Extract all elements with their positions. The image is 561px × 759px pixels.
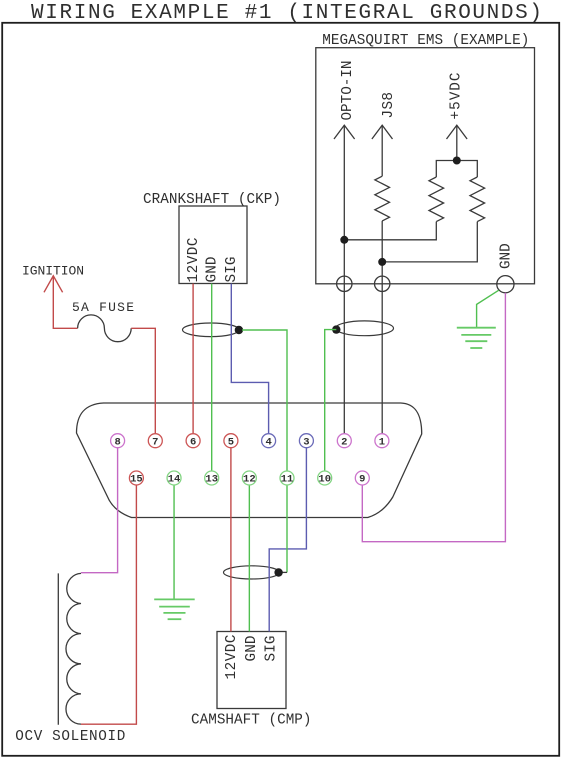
wire +5VDC tee xyxy=(436,161,477,178)
wire CKP GND to pin13 (green) xyxy=(211,284,213,472)
wire pin3 to CMP SIG (blue) xyxy=(269,448,306,632)
pin 14 xyxy=(167,471,181,485)
svg-text:CRANKSHAFT (CKP): CRANKSHAFT (CKP) xyxy=(143,192,281,208)
svg-text:JS8: JS8 xyxy=(381,92,397,119)
svg-text:10: 10 xyxy=(318,474,331,486)
wire R3 to JS8 node xyxy=(382,222,477,262)
solenoid core bar xyxy=(57,573,59,724)
wire R2 to OPTO-IN node xyxy=(344,222,436,240)
wire JS8 lower xyxy=(381,221,383,434)
wire CKP 12VDC to pin6 (red) xyxy=(192,284,194,434)
camshaft box xyxy=(217,632,286,709)
svg-text:WIRING EXAMPLE #1 (INTEGRAL GR: WIRING EXAMPLE #1 (INTEGRAL GROUNDS) xyxy=(31,2,542,25)
connector DB15 shell xyxy=(77,403,422,518)
crankshaft box xyxy=(179,206,247,284)
terminal circle GND xyxy=(497,276,514,293)
svg-text:6: 6 xyxy=(190,436,196,448)
terminal circle OPTO-IN xyxy=(337,276,352,291)
resistor R2 xyxy=(429,177,444,222)
wire OPTO-IN shaft xyxy=(343,125,345,434)
resistor R1 (JS8 pull) xyxy=(375,176,390,221)
svg-text:5: 5 xyxy=(228,436,234,448)
svg-text:CAMSHAFT (CMP): CAMSHAFT (CMP) xyxy=(191,713,312,729)
svg-text:13: 13 xyxy=(205,474,218,486)
svg-text:+5VDC: +5VDC xyxy=(448,73,464,120)
svg-text:SIG: SIG xyxy=(263,636,279,662)
svg-text:5A FUSE: 5A FUSE xyxy=(72,300,134,315)
wire ignition to fuse (red) xyxy=(53,276,77,329)
wire GND to pin9 (magenta) xyxy=(362,293,505,542)
svg-text:GND: GND xyxy=(205,257,221,283)
pin 9 xyxy=(355,471,369,485)
megasquirt box U1 xyxy=(316,48,535,284)
pin 12 xyxy=(242,471,256,485)
wire pin14 to ground (green) xyxy=(173,485,175,599)
shield ellipse CMP xyxy=(224,566,280,579)
pin 13 xyxy=(205,471,219,485)
svg-text:SIG: SIG xyxy=(224,257,240,283)
wire GND to ground (green) xyxy=(477,290,499,328)
svg-text:GND: GND xyxy=(498,243,514,269)
wire JS8 upper xyxy=(381,125,383,176)
node OPTO-IN junction xyxy=(340,236,348,244)
svg-text:14: 14 xyxy=(168,474,181,486)
wire CKP shield to pin11 (green) xyxy=(242,330,287,471)
svg-text:8: 8 xyxy=(114,436,120,448)
svg-text:OPTO-IN: OPTO-IN xyxy=(340,61,356,121)
wire +5VDC shaft xyxy=(456,125,458,160)
terminal circle JS8 xyxy=(375,276,390,291)
wire pin8 to solenoid (magenta) xyxy=(81,448,118,573)
node JS8 junction xyxy=(378,258,386,266)
pin 11 xyxy=(280,471,294,485)
arrow +5VDC xyxy=(447,125,468,139)
svg-text:GND: GND xyxy=(244,636,260,662)
ground symbol right xyxy=(457,328,496,348)
node MS shield xyxy=(332,325,340,333)
pin 2 xyxy=(337,434,351,448)
svg-text:12: 12 xyxy=(243,474,256,486)
fuse F1 xyxy=(78,315,132,342)
svg-text:7: 7 xyxy=(152,436,158,448)
pin 3 xyxy=(299,434,313,448)
arrow JS8 xyxy=(372,125,393,139)
pin 1 xyxy=(375,434,389,448)
wire pin11 to CMP shield (green) xyxy=(286,485,288,572)
pin circles top row xyxy=(111,434,389,485)
node +5VDC junction xyxy=(453,157,461,165)
svg-text:15: 15 xyxy=(130,474,143,486)
wire pin5 to CMP 12VDC (red) xyxy=(230,448,232,632)
node CKP shield xyxy=(235,326,243,334)
pin 8 xyxy=(111,434,125,448)
wire pin12 to CMP GND (green) xyxy=(248,485,250,632)
resistor R3 xyxy=(470,177,485,222)
svg-text:2: 2 xyxy=(341,436,347,448)
ground symbol left xyxy=(154,599,195,619)
wire MS shield to pin10 (green) xyxy=(325,330,337,471)
pin 5 xyxy=(224,434,238,448)
pin 7 xyxy=(148,434,162,448)
svg-text:11: 11 xyxy=(281,474,294,486)
wire solenoid to pin15 (red) xyxy=(81,485,136,724)
wire fuse to pin7 (red) xyxy=(131,328,155,433)
svg-text:12VDC: 12VDC xyxy=(224,635,240,680)
shield ellipse CKP xyxy=(183,323,240,337)
pin 4 xyxy=(262,434,276,448)
wire shield stub (black) xyxy=(281,571,288,573)
svg-text:1: 1 xyxy=(379,436,385,448)
pin numbers xyxy=(114,436,385,485)
svg-text:3: 3 xyxy=(303,436,309,448)
svg-text:9: 9 xyxy=(359,474,365,486)
pin 10 xyxy=(318,471,332,485)
svg-text:OCV SOLENOID: OCV SOLENOID xyxy=(15,729,125,745)
svg-text:12VDC: 12VDC xyxy=(186,238,202,283)
pin 6 xyxy=(186,434,200,448)
wire CKP SIG to pin4 (blue) xyxy=(231,284,268,434)
arrow ignition (red) xyxy=(44,276,63,293)
shield ellipse MS xyxy=(336,321,394,336)
arrow OPTO-IN xyxy=(334,125,355,139)
svg-text:MEGASQUIRT EMS (EXAMPLE): MEGASQUIRT EMS (EXAMPLE) xyxy=(322,33,529,49)
node CMP shield xyxy=(274,568,282,576)
svg-text:4: 4 xyxy=(265,436,271,448)
solenoid L1 coil xyxy=(66,573,81,724)
pin 15 xyxy=(129,471,143,485)
